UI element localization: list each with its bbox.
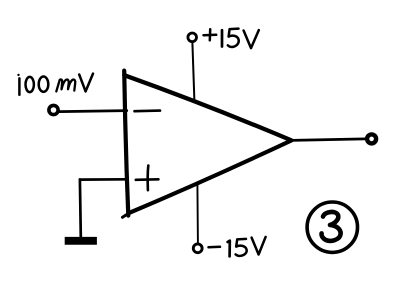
label -15V bbox=[209, 237, 266, 256]
wire +15V supply bbox=[192, 43, 194, 101]
+15V terminal bbox=[188, 33, 197, 42]
label 100mV bbox=[17, 74, 93, 95]
wire -15V supply bbox=[196, 184, 199, 243]
label +15V bbox=[204, 29, 259, 48]
wire output bbox=[291, 139, 365, 141]
-15V terminal bbox=[193, 244, 202, 253]
ground bbox=[65, 237, 97, 245]
figure number 3 bbox=[307, 202, 357, 252]
output terminal bbox=[367, 134, 376, 143]
wire inverting input bbox=[60, 111, 127, 112]
op-amp U1 bbox=[123, 71, 292, 218]
input terminal bbox=[49, 105, 58, 114]
wire non-inverting input bbox=[80, 179, 127, 237]
